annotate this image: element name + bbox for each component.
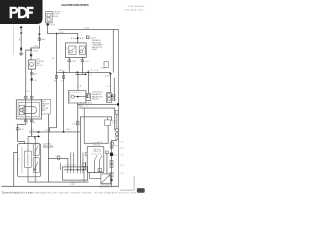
wire drop x88.3	[87, 72, 90, 93]
wire below resistor	[27, 167, 30, 181]
frame right border	[117, 30, 120, 187]
svg-text:A-05 4: A-05 4	[105, 75, 110, 78]
control unit box	[63, 167, 88, 180]
tick	[68, 60, 71, 62]
radiator fan inner box	[18, 103, 40, 117]
svg-text:1: 1	[30, 180, 31, 182]
relay sub box 1	[69, 46, 76, 55]
svg-text:1 B-W (A-05): 1 B-W (A-05)	[92, 90, 103, 93]
svg-text:1 B-W 2: 1 B-W 2	[100, 68, 107, 70]
interchange horizontal 2	[79, 107, 114, 110]
small box top	[105, 151, 108, 154]
svg-text:A-07: A-07	[20, 128, 24, 131]
wire below condenser motor	[30, 69, 33, 100]
top bus HOT	[59, 28, 119, 31]
small tick	[46, 24, 49, 26]
connector bits left of box	[85, 153, 87, 156]
right bus vertical x113.3	[112, 29, 115, 72]
component left of right bus	[104, 62, 108, 68]
long vertical x63.6 down	[62, 72, 65, 132]
page corner lines	[133, 176, 136, 190]
outside-frame ref texts	[121, 141, 124, 175]
dot on dashed	[77, 37, 79, 39]
svg-text:B-07: B-07	[114, 155, 118, 157]
svg-text:Downloaded from: Downloaded from	[2, 191, 32, 194]
chain circle 1	[115, 129, 118, 132]
relay sub box 2	[79, 46, 85, 55]
jb dot	[77, 96, 79, 98]
jb dashes top	[73, 91, 82, 93]
left vertical x48.1 from label box down	[47, 114, 50, 158]
resistor zigzag	[27, 153, 29, 167]
tick on wire B	[38, 34, 40, 35]
radiator fan motor assembly outer box	[16, 100, 41, 119]
inline connector triangle	[38, 131, 40, 134]
svg-text:2-16: 2-16	[121, 154, 124, 156]
PDF badge	[0, 0, 43, 24]
footer dark badge	[137, 188, 145, 193]
connector left of AC box	[83, 163, 86, 166]
riser x108.1	[107, 126, 110, 144]
ignition switch box top	[46, 12, 53, 23]
svg-text:2 B-W: 2 B-W	[33, 46, 38, 48]
tick	[81, 60, 84, 62]
motor circle	[30, 63, 34, 67]
wire down into relay box	[76, 33, 79, 43]
relay big box	[65, 43, 86, 58]
svg-text:ELECTRIC FANS (TO INT.): ELECTRIC FANS (TO INT.)	[62, 3, 89, 7]
left wire down to control box	[16, 124, 19, 141]
faint second link wire	[12, 26, 15, 55]
connector box B	[107, 93, 112, 103]
fuse on wire A	[20, 48, 22, 51]
jog left to rad wire	[25, 49, 31, 52]
interchange horizontal 3	[80, 116, 112, 119]
diagonal box	[101, 174, 111, 184]
right down to cu box	[67, 158, 70, 170]
fan control box bottom-left	[18, 144, 41, 177]
svg-text:L: L	[18, 161, 19, 163]
connector box A	[86, 93, 91, 101]
dot on bus y72 right	[109, 73, 111, 75]
diode feed stub	[106, 117, 109, 120]
circle comp	[110, 142, 113, 145]
small box right end	[115, 111, 118, 115]
right mid vertical x106.9	[106, 153, 109, 174]
switch diagonals in AC box	[94, 155, 97, 161]
connector atop motor box	[30, 54, 32, 56]
wire right to bus dot	[47, 32, 56, 35]
left wire bottom L into box	[17, 140, 24, 143]
svg-text:RELAY: RELAY	[92, 48, 98, 51]
svg-text:A-05X: A-05X	[91, 36, 97, 39]
wire B vertical from badge	[38, 26, 41, 49]
dots on y72 bus	[76, 71, 78, 73]
wire below ign	[46, 23, 49, 34]
svg-text:2 B-R: 2 B-R	[65, 129, 70, 131]
motor sub-box	[19, 105, 24, 115]
black exit tick on frame	[117, 103, 119, 105]
svg-text:MOTOR: MOTOR	[36, 65, 43, 67]
tick on wire A	[20, 32, 22, 33]
stacked connectors	[110, 161, 113, 164]
motor stadium	[22, 107, 37, 114]
diode box	[105, 120, 111, 126]
connector on wire	[30, 73, 33, 75]
svg-text:1 B-W: 1 B-W	[78, 106, 83, 108]
chain circle 2	[116, 133, 119, 136]
wire into jb from bus	[77, 72, 80, 90]
wire B down to motor	[30, 48, 33, 61]
svg-text:FAN SENSOR: FAN SENSOR	[100, 185, 112, 188]
marks column right	[113, 94, 115, 97]
condenser fan motor box	[28, 60, 35, 69]
jog left at y127.4	[49, 126, 57, 129]
svg-text:RELAY: RELAY	[53, 15, 60, 18]
lower jog wire y74.3	[75, 73, 86, 76]
jog to right column	[111, 139, 117, 142]
wire drop x110.5	[109, 74, 112, 93]
internal bus w dots	[64, 169, 86, 172]
rad left wire upper	[24, 50, 27, 100]
ground wire left of box	[13, 151, 17, 154]
sub box relay top	[33, 144, 39, 155]
horizontal y143.2 to right	[84, 142, 109, 145]
dashed row inside	[92, 153, 102, 155]
jb line	[74, 95, 86, 98]
wire through right subboxes	[34, 136, 37, 182]
svg-text:SWITCH: SWITCH	[93, 144, 101, 146]
resistor box middle	[25, 151, 32, 167]
svg-text:B-07: B-07	[121, 148, 124, 150]
wire drop x114.2	[113, 78, 116, 101]
sub box relay bottom	[33, 158, 39, 173]
internal left rail	[21, 147, 24, 174]
svg-text:2: 2	[29, 142, 30, 144]
dot on bus y72 at x88.3	[87, 71, 89, 73]
PDF letters	[10, 7, 34, 18]
black diamond	[110, 153, 113, 156]
wire into box 1	[27, 136, 30, 151]
svg-text:2-14: 2-14	[121, 141, 124, 143]
svg-text:5: 5	[27, 123, 28, 125]
svg-text:2 B-R: 2 B-R	[59, 70, 64, 72]
dark blob component	[31, 78, 33, 80]
connector ticks below box	[24, 120, 27, 122]
wire A vertical fusible link	[20, 26, 23, 53]
wire y158 center	[48, 157, 68, 160]
svg-text:3: 3	[36, 180, 37, 182]
small box inside bottom right	[98, 169, 102, 172]
center junction block box	[68, 90, 86, 103]
dark tick near bottom	[110, 179, 112, 181]
jb right tick	[86, 95, 88, 97]
lower bus to relay box	[57, 32, 78, 35]
svg-text:2 B-W: 2 B-W	[59, 32, 64, 34]
feed into AC box left from h2	[83, 108, 86, 144]
tick box below circle	[110, 146, 113, 148]
drop to y131.9	[48, 127, 51, 132]
bus y72	[56, 71, 110, 74]
svg-text:2-18: 2-18	[121, 173, 124, 175]
dashes right of circle	[114, 144, 117, 147]
connector pair above rad box	[24, 96, 27, 98]
svg-text:2 L-R 14 (A-05): 2 L-R 14 (A-05)	[80, 101, 93, 104]
wire below AC box L	[88, 173, 91, 179]
connector on wire B	[38, 38, 40, 41]
wires through rad box	[24, 100, 27, 119]
frame bottom border	[2, 185, 119, 188]
relay exit wire 2	[81, 57, 84, 74]
wire B jog horizontal y47.9	[30, 47, 39, 50]
connector symbols below bus	[55, 75, 57, 78]
connector on it	[57, 156, 60, 159]
bottom bus y182	[28, 181, 89, 184]
dot at bottom	[63, 131, 65, 133]
interchange horizontal 1	[77, 103, 117, 106]
svg-text:RELAY 2: RELAY 2	[92, 97, 99, 100]
svg-text:1995 MODEL: 1995 MODEL	[128, 6, 146, 8]
relay exit wire 1	[68, 57, 71, 72]
svg-text:2 (A-02) 3: 2 (A-02) 3	[93, 150, 101, 153]
fuse at dashed right	[86, 36, 89, 39]
svg-text:2 L-R: 2 L-R	[45, 129, 50, 131]
wire from dot y33 down through y72 to y127.4	[55, 33, 58, 128]
drop to fan control box	[33, 136, 36, 139]
jb drop wire x77.7	[76, 103, 79, 170]
bus dot	[56, 33, 58, 35]
motor circle	[20, 108, 24, 112]
ign box innards	[47, 13, 50, 16]
jb circle	[71, 95, 74, 98]
svg-text:2 B-R: 2 B-R	[71, 61, 76, 63]
dark blob right of box B	[111, 95, 112, 97]
svg-text:2 L: 2 L	[86, 106, 89, 108]
wires below rad box	[24, 119, 27, 124]
svg-text:4: 4	[111, 102, 112, 104]
svg-text:A-09: A-09	[34, 73, 38, 76]
pin wires into cu	[60, 153, 86, 170]
long horizontal y131.9	[29, 131, 81, 134]
chain box	[116, 137, 118, 140]
svg-text:SGT-2010 / No.7: SGT-2010 / No.7	[125, 10, 146, 12]
svg-text:2 L-R: 2 L-R	[55, 156, 60, 158]
svg-text:B-19: B-19	[121, 165, 124, 167]
tick on wire A top	[20, 27, 23, 28]
jog left y124	[17, 123, 26, 126]
rad box text label box	[41, 99, 50, 114]
AC box	[87, 146, 104, 172]
svg-text:1 2 3 4 5 6 7 8: 1 2 3 4 5 6 7 8	[65, 165, 77, 167]
left down	[47, 158, 50, 182]
right column vertical	[110, 140, 113, 186]
symbol chain near frame	[116, 114, 119, 129]
svg-text:4: 4	[36, 142, 37, 144]
connector on it	[76, 122, 79, 125]
connector on left wire	[16, 128, 19, 130]
junction dot	[30, 49, 32, 51]
svg-text:2 B-W: 2 B-W	[33, 50, 38, 52]
stub wire 2 w triangle	[28, 135, 40, 138]
svg-text:2 L: 2 L	[31, 134, 34, 136]
ground symbol left	[19, 53, 23, 56]
pin ticks below bus	[68, 170, 84, 174]
vertical x80.3 down	[79, 117, 82, 170]
svg-text:5 W-B: 5 W-B	[84, 27, 90, 29]
dashed line relay box top	[71, 37, 85, 39]
svg-text:1 B-W: 1 B-W	[50, 25, 55, 27]
lower comp	[110, 173, 113, 178]
svg-text:2 L-R: 2 L-R	[30, 130, 35, 132]
svg-text:A-05: A-05	[41, 38, 45, 41]
left end verticals	[110, 117, 113, 121]
